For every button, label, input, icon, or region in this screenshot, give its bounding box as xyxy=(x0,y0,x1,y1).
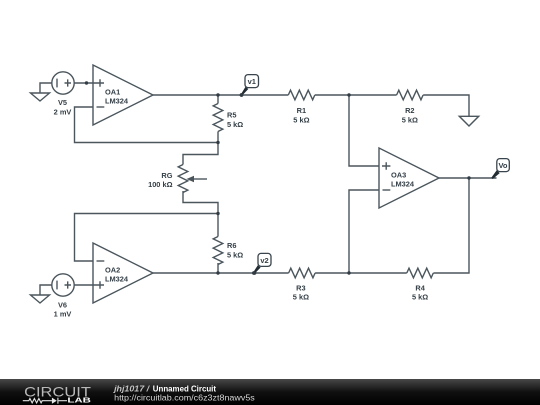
svg-text:LAB: LAB xyxy=(67,396,91,405)
svg-text:R6: R6 xyxy=(227,241,236,250)
svg-text:R2: R2 xyxy=(405,106,414,115)
svg-text:V5: V5 xyxy=(58,98,67,107)
svg-text:5 kΩ: 5 kΩ xyxy=(412,293,428,302)
svg-text:100 kΩ: 100 kΩ xyxy=(148,180,172,189)
svg-text:RG: RG xyxy=(161,171,172,180)
svg-text:OA1: OA1 xyxy=(105,88,120,97)
svg-text:R5: R5 xyxy=(227,111,236,120)
svg-text:OA3: OA3 xyxy=(391,171,406,180)
svg-text:R4: R4 xyxy=(415,283,425,292)
svg-text:v1: v1 xyxy=(248,77,256,86)
svg-text:5 kΩ: 5 kΩ xyxy=(227,120,243,129)
svg-text:http://circuitlab.com/c6z3zt8n: http://circuitlab.com/c6z3zt8nawv5s xyxy=(114,392,255,402)
svg-text:2 mV: 2 mV xyxy=(54,108,72,117)
svg-text:V6: V6 xyxy=(58,300,67,309)
svg-text:LM324: LM324 xyxy=(105,274,129,283)
svg-text:5 kΩ: 5 kΩ xyxy=(293,115,309,124)
svg-text:5 kΩ: 5 kΩ xyxy=(227,251,243,260)
svg-text:LM324: LM324 xyxy=(391,179,415,188)
svg-text:R1: R1 xyxy=(297,106,306,115)
svg-text:1 mV: 1 mV xyxy=(54,310,72,319)
svg-text:LM324: LM324 xyxy=(105,96,129,105)
svg-text:Vo: Vo xyxy=(498,161,507,170)
svg-text:v2: v2 xyxy=(260,256,268,265)
svg-text:OA2: OA2 xyxy=(105,266,120,275)
svg-text:5 kΩ: 5 kΩ xyxy=(293,293,309,302)
svg-text:R3: R3 xyxy=(296,283,305,292)
svg-text:5 kΩ: 5 kΩ xyxy=(402,115,418,124)
